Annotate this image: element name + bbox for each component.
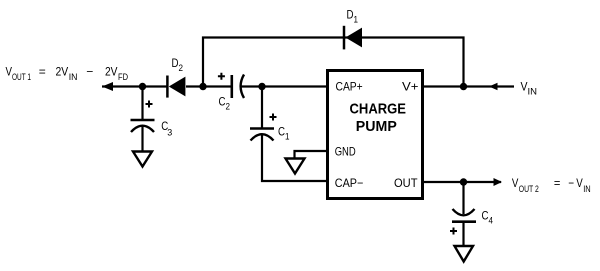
label VOUT2 formula — [512, 176, 591, 194]
svg-text:IN: IN — [583, 184, 591, 194]
ground under C4 — [455, 246, 474, 262]
node junction VIN/V+ — [460, 83, 467, 90]
svg-text:2: 2 — [226, 102, 231, 112]
capacitor C1 — [250, 129, 274, 141]
label D1 — [347, 8, 359, 25]
svg-text:CAP+: CAP+ — [336, 80, 363, 94]
wire main row left of D2 — [102, 85, 167, 87]
label VIN — [521, 80, 538, 97]
svg-text:1: 1 — [354, 15, 359, 25]
svg-text:−: − — [568, 176, 574, 190]
plus C3 — [146, 101, 153, 108]
wire C2 to CAP+ pin — [240, 85, 327, 87]
wire V+ to VIN — [423, 85, 514, 87]
svg-text:2V: 2V — [105, 65, 118, 79]
wire C4 branch top — [462, 182, 464, 214]
svg-text:=: = — [39, 65, 46, 79]
wire GND pin to ground — [295, 151, 328, 158]
capacitor C3 — [131, 120, 155, 132]
capacitor C4 — [452, 209, 476, 222]
capacitor C2 — [232, 75, 244, 99]
svg-text:OUT 1: OUT 1 — [12, 72, 31, 82]
wire OUT to VOUT2 — [423, 181, 501, 183]
svg-text:V: V — [521, 80, 528, 94]
svg-text:GND: GND — [335, 144, 356, 158]
IC U1 CHARGE PUMP box — [328, 71, 423, 199]
label D2 — [172, 56, 184, 73]
label C3 — [161, 119, 172, 137]
ground at GND pin — [286, 159, 305, 174]
node junction C3 — [139, 83, 146, 90]
svg-text:CHARGE: CHARGE — [350, 100, 407, 117]
arrow VOUT2 — [494, 178, 503, 186]
arrow VIN — [489, 83, 498, 91]
label C4 — [482, 209, 494, 226]
svg-text:3: 3 — [167, 127, 172, 137]
wire C3 to ground — [141, 126, 143, 152]
wire C3 branch top — [141, 87, 143, 120]
plus C2 — [218, 73, 225, 80]
svg-text:V+: V+ — [402, 80, 419, 94]
svg-text:=: = — [554, 176, 561, 190]
wire C1 branch top — [261, 87, 263, 129]
label VOUT1 formula — [6, 65, 129, 83]
ground under C3 — [133, 152, 152, 167]
svg-text:2: 2 — [179, 63, 184, 73]
svg-text:V: V — [576, 176, 583, 190]
svg-text:−: − — [86, 65, 93, 79]
svg-text:OUT 2: OUT 2 — [519, 184, 539, 194]
svg-text:OUT: OUT — [394, 176, 418, 190]
svg-text:IN: IN — [528, 87, 538, 97]
node junction OUT/C4 — [460, 178, 467, 185]
svg-text:1: 1 — [285, 132, 290, 142]
wire top rail with D1 — [203, 38, 464, 87]
arrow VOUT1 — [102, 82, 113, 91]
svg-text:4: 4 — [489, 216, 494, 226]
diode D2 — [167, 76, 185, 98]
wire C4 to ground — [462, 222, 464, 246]
diode D1 — [344, 26, 362, 50]
wire D2 to C2 — [186, 85, 231, 87]
svg-text:FD: FD — [118, 72, 128, 82]
node junction D2/top rail — [199, 83, 206, 90]
plus C4 — [450, 228, 457, 235]
label C2 — [219, 95, 231, 112]
svg-text:CAP−: CAP− — [335, 176, 364, 190]
svg-text:2V: 2V — [56, 65, 69, 79]
node junction C1 — [258, 83, 265, 90]
label C1 — [278, 125, 290, 142]
svg-text:PUMP: PUMP — [356, 118, 397, 135]
svg-text:IN: IN — [69, 72, 78, 82]
plus C1 — [270, 114, 277, 121]
wire C1 to CAP- pin — [262, 135, 327, 182]
svg-text:V: V — [512, 176, 519, 190]
